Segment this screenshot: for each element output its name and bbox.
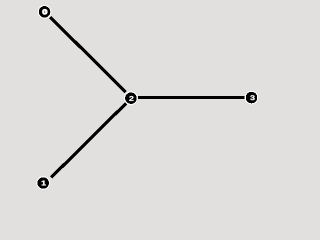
- node 0: [38, 5, 52, 19]
- node 2: [124, 91, 138, 105]
- edge 0-2 (wire): [50, 17, 125, 92]
- edge 2-3 (wire): [138, 96, 244, 99]
- edge 1-2 (wire): [51, 103, 126, 177]
- node 1: [36, 176, 50, 190]
- node 3: [245, 91, 259, 105]
